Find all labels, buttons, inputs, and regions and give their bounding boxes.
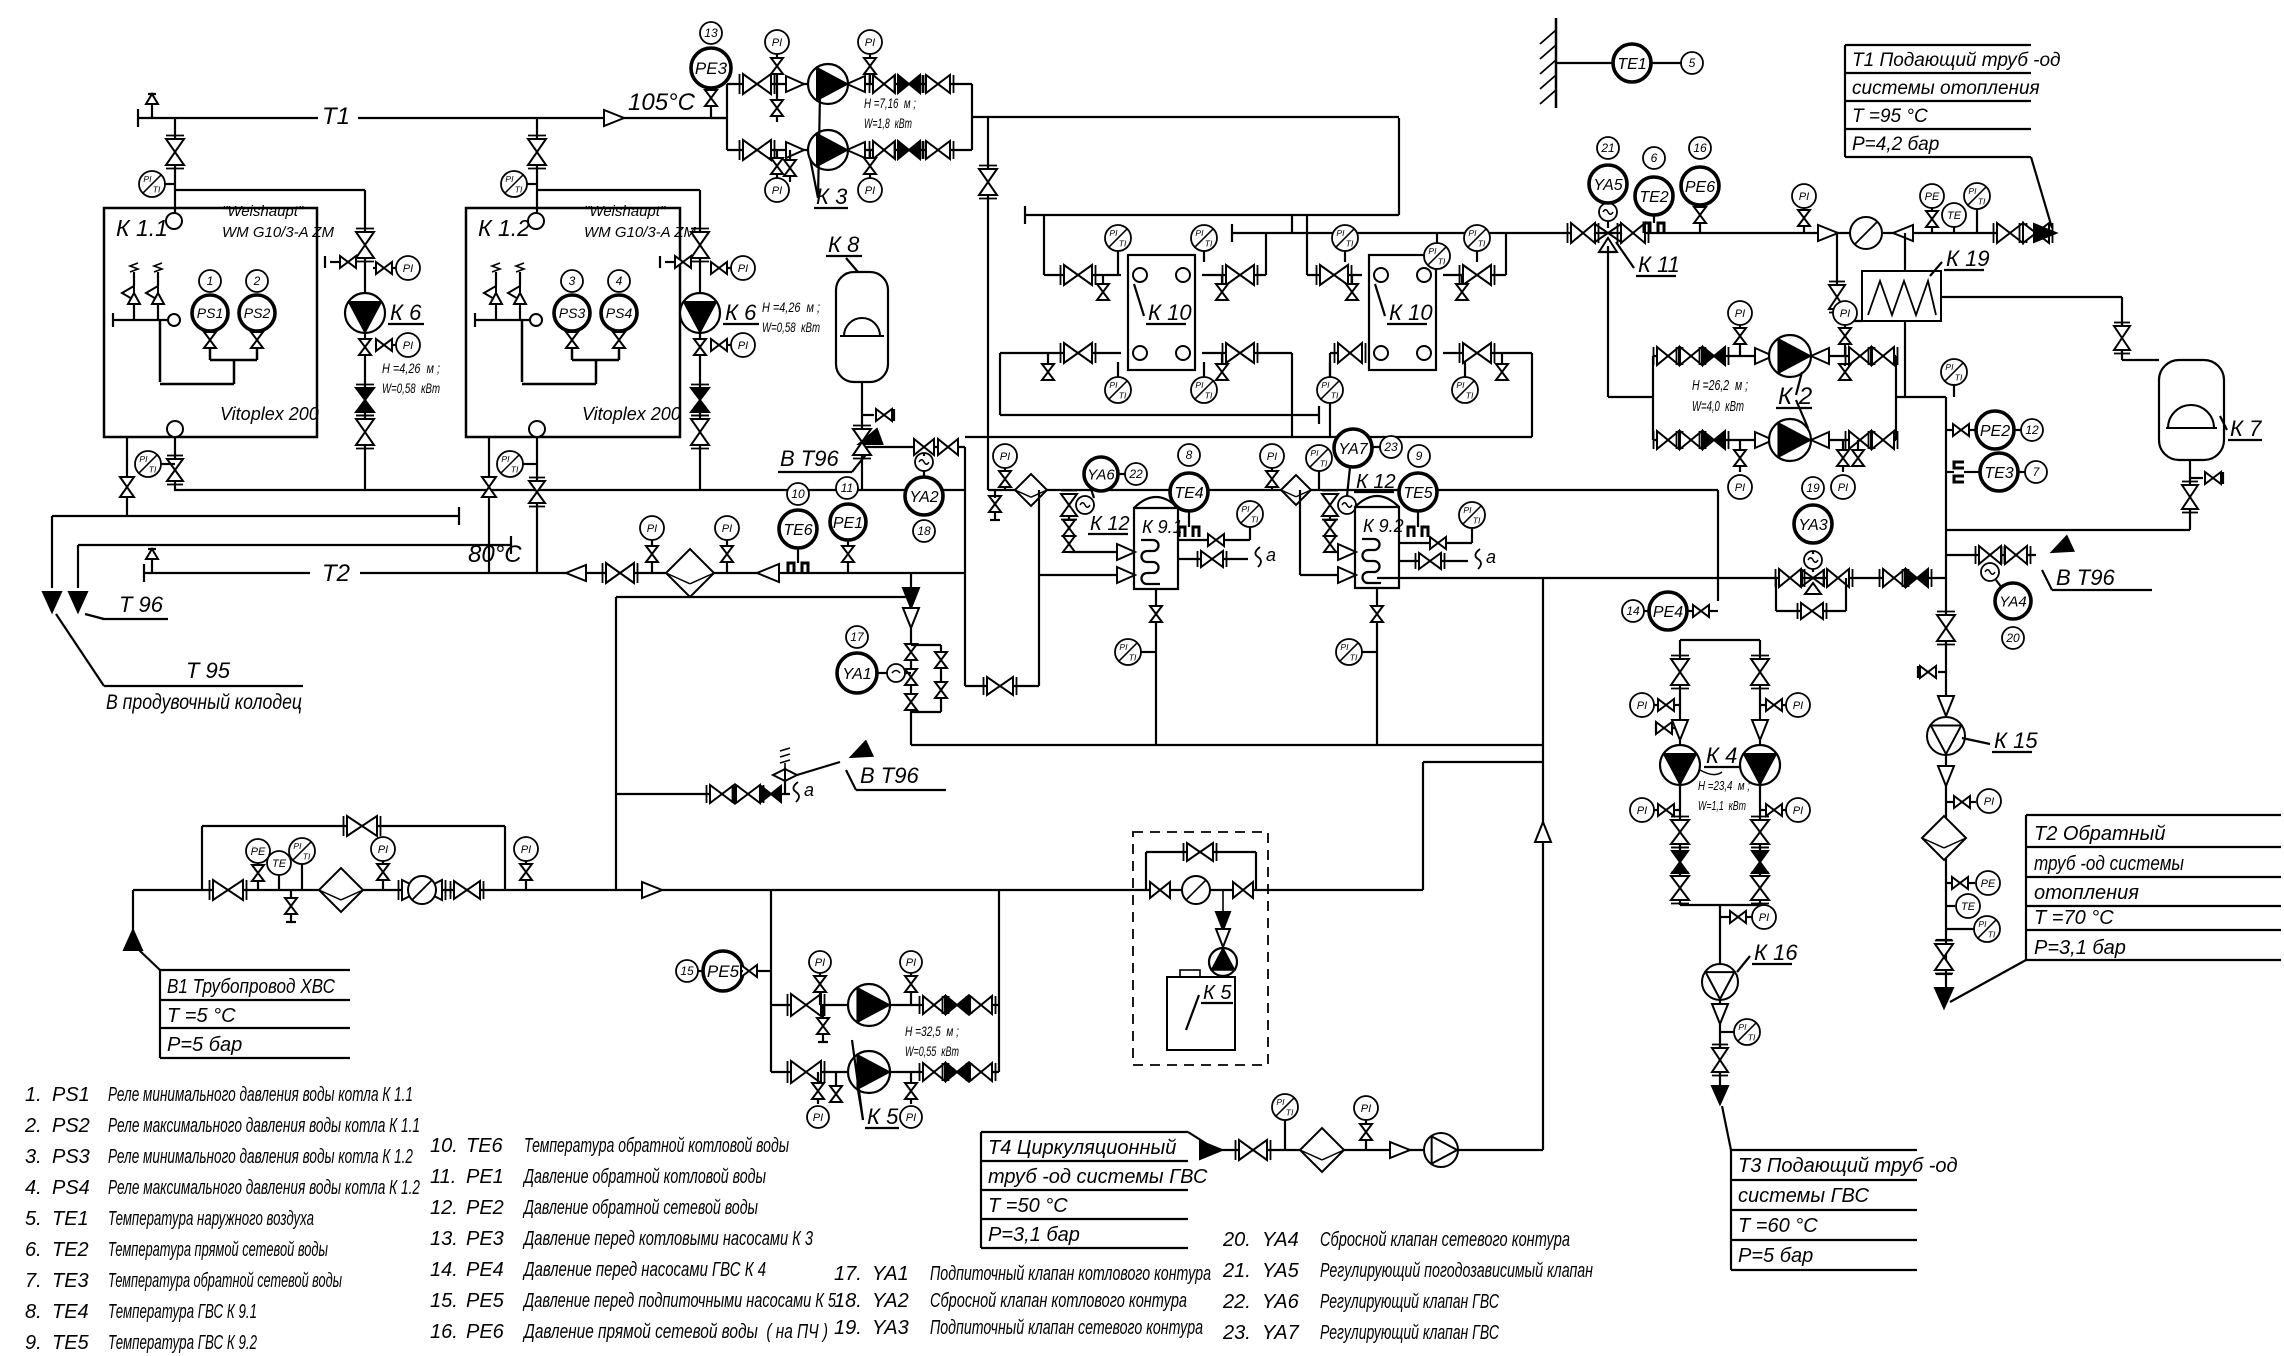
svg-text:PI: PI	[1456, 380, 1465, 390]
balloon 6	[1643, 147, 1665, 169]
svg-text:системы отопления: системы отопления	[1852, 78, 2040, 99]
wire PS manifold K1.1	[160, 348, 257, 384]
port K10 B	[1417, 268, 1431, 282]
svg-text:Давление прямой сетевой воды: Давление прямой сетевой воды ( на ПЧ )	[522, 1321, 828, 1343]
wire makeup riser x1423	[1422, 762, 1424, 890]
svg-text:H =4,26 м ;: H =4,26 м ;	[382, 360, 440, 376]
wire T4 line	[1222, 1149, 1543, 1151]
svg-text:Регулирующий клапан ГВС: Регулирующий клапан ГВС	[1320, 1291, 1499, 1313]
label K6-2	[723, 300, 759, 325]
valve K9.1 Sa	[1198, 551, 1227, 567]
label K4	[1700, 743, 1740, 775]
squiggle a y794	[793, 780, 814, 802]
valve K2 bot in2	[1677, 431, 1706, 449]
pump group K2 frame	[1653, 356, 1896, 440]
valve under PS1	[204, 331, 216, 348]
balloon 17	[846, 626, 868, 648]
valve K12-1	[1061, 491, 1077, 520]
svg-text:ТЕ6: ТЕ6	[783, 522, 812, 539]
valve K2 bot out2	[1869, 431, 1898, 449]
svg-text:PI: PI	[1759, 912, 1769, 924]
gate valve supply 1	[1994, 223, 2027, 243]
pump K6-1	[345, 293, 385, 333]
svg-text:PI: PI	[1000, 451, 1010, 463]
tank K8	[836, 272, 888, 382]
vent K10A bl	[1042, 353, 1054, 380]
burner valves K1.1	[113, 263, 180, 382]
svg-text:Р=3,1 бар: Р=3,1 бар	[2034, 937, 2126, 959]
wire K4 out	[1719, 905, 1721, 964]
label K1.2	[478, 215, 530, 241]
svg-text:W=0,58 кВт: W=0,58 кВт	[762, 319, 820, 335]
svg-text:ТЕ5: ТЕ5	[52, 1332, 90, 1354]
check makeup out	[1903, 569, 1932, 587]
label B T96 bottom	[846, 763, 946, 790]
PI/TI T4	[1272, 1094, 1298, 1150]
svg-text:TI: TI	[1478, 238, 1486, 248]
leader T4 arrow	[1188, 1132, 1222, 1159]
svg-text:1: 1	[207, 274, 214, 288]
svg-text:20: 20	[2005, 631, 2020, 645]
flow tri T4 riser	[1535, 822, 1551, 842]
PI K4 right bot	[1760, 798, 1810, 822]
table B1	[160, 970, 350, 1058]
check valve K2 top	[1700, 347, 1729, 365]
svg-text:14.: 14.	[430, 1259, 458, 1281]
svg-text:PI: PI	[1276, 1097, 1285, 1107]
svg-text:PI: PI	[378, 844, 388, 856]
label K10 A	[1134, 284, 1192, 325]
PI K5 bot left	[807, 1072, 829, 1128]
leader T3 table	[1722, 1106, 1731, 1150]
svg-text:РЕ: РЕ	[1981, 878, 1996, 890]
leader T1 table	[2031, 157, 2052, 228]
wire softener drop	[1222, 890, 1224, 946]
port circle K1.2 bottom	[529, 421, 545, 437]
svg-text:РЕ3: РЕ3	[695, 59, 728, 78]
svg-text:Т4 Циркуляционный: Т4 Циркуляционный	[988, 1137, 1176, 1159]
balloon 15	[676, 960, 703, 982]
svg-text:Давление перед подпиточными на: Давление перед подпиточными насосами К 5	[523, 1290, 837, 1312]
tank K7	[2122, 360, 2224, 460]
label B T96 right	[2042, 565, 2152, 590]
valve K5 bot in	[788, 1061, 825, 1083]
vent K4 left	[1656, 722, 1680, 734]
svg-text:PI: PI	[1637, 700, 1647, 712]
inlet check2 K9.1	[1117, 567, 1135, 583]
svg-text:H =7,16 м ;: H =7,16 м ;	[864, 95, 916, 111]
valve K5 box left	[1150, 882, 1170, 898]
PI right of filter	[715, 516, 739, 573]
PI branch right riser	[1946, 789, 2001, 813]
PI B1 right	[514, 837, 538, 890]
valve K2 top out2	[1869, 347, 1898, 365]
svg-text:Давление обратной сетевой воды: Давление обратной сетевой воды	[523, 1197, 759, 1219]
valve YA2 on blowoff	[914, 439, 934, 455]
drain valve K8	[862, 409, 894, 421]
valve+PI right bot K6-1	[376, 333, 420, 357]
wire K2 bottom branch	[1653, 439, 1896, 441]
bypass drop K9.2	[1300, 490, 1355, 575]
valve K5 top in	[788, 994, 825, 1016]
DHW tank K9.2	[1355, 496, 1404, 588]
svg-text:PI: PI	[505, 174, 514, 184]
instrument TE3	[1964, 453, 2018, 491]
svg-text:23: 23	[1383, 440, 1398, 454]
svg-text:PI: PI	[1840, 308, 1850, 320]
wire collector y437	[965, 436, 1532, 438]
svg-text:PI: PI	[865, 185, 875, 197]
instrument YA1	[837, 653, 877, 693]
svg-text:отопления: отопления	[2034, 882, 2139, 904]
heat exchanger K10 B	[1369, 255, 1436, 370]
label H W K3	[864, 95, 916, 131]
instrument PI/TI at K1.2 top	[501, 171, 537, 197]
svg-text:ТЕ3: ТЕ3	[52, 1270, 89, 1292]
svg-text:18: 18	[917, 524, 931, 538]
svg-text:PI: PI	[1463, 505, 1472, 515]
pump K4-1	[1660, 745, 1700, 785]
svg-text:К 19: К 19	[1946, 246, 1990, 271]
valve on K1.2 drain	[482, 477, 496, 497]
wire K10B top-left	[1307, 215, 1362, 275]
svg-text:13: 13	[704, 26, 718, 40]
boiler K1.1	[104, 208, 317, 437]
vent mid K3 top	[771, 84, 783, 122]
svg-text:W=4,0 кВт: W=4,0 кВт	[1692, 398, 1744, 415]
svg-text:Т =95 °С: Т =95 °С	[1852, 106, 1928, 127]
wire DHW hot drop	[1717, 490, 1719, 601]
svg-text:Сбросной клапан сетевого конту: Сбросной клапан сетевого контура	[1320, 1229, 1570, 1251]
DHW tank K9.1	[1134, 497, 1183, 589]
valve K7 bottom	[2182, 482, 2198, 513]
valve+PI right top K6-2	[711, 256, 755, 280]
label Weishaupt	[222, 203, 304, 220]
label softener K5	[1186, 982, 1233, 1030]
wire K19 out	[1904, 321, 1906, 397]
valve K10A top-left	[1061, 265, 1096, 285]
svg-text:Р=5 бар: Р=5 бар	[1738, 1245, 1813, 1267]
pump K5-2	[848, 1051, 890, 1093]
svg-text:21: 21	[1600, 141, 1614, 155]
label H W K2	[1692, 377, 1748, 415]
wire riser boiler loop	[964, 447, 966, 686]
svg-text:TI: TI	[1320, 458, 1328, 468]
svg-text:PI: PI	[1336, 228, 1345, 238]
wire K9.1 side y540	[1178, 539, 1250, 541]
wire blowdown drop left	[51, 516, 53, 588]
instrument PS2	[239, 295, 275, 331]
table T3 text	[1738, 1155, 1958, 1267]
PI bot right K3	[858, 150, 882, 202]
instrument PS3	[554, 295, 590, 331]
wire K7 bottom	[1946, 460, 2190, 530]
port K10 A	[1133, 268, 1147, 282]
actuator YA2	[915, 453, 933, 477]
svg-text:"Weishaupt": "Weishaupt"	[584, 203, 666, 220]
check K2 bot	[1755, 432, 1773, 448]
svg-text:YA2: YA2	[909, 489, 938, 506]
instrument PE6	[1681, 167, 1719, 205]
instrument PE3	[691, 48, 731, 88]
pump K4-2	[1740, 745, 1780, 785]
balloon 20	[2002, 627, 2024, 649]
table T4 text	[988, 1137, 1208, 1246]
svg-text:TI: TI	[1955, 372, 1963, 382]
valve under K8	[853, 426, 871, 459]
svg-text:PI: PI	[1267, 451, 1277, 463]
valve K3 top out2	[923, 75, 954, 93]
TE B1	[267, 851, 291, 890]
svg-text:PI: PI	[1793, 700, 1803, 712]
check K5 bot	[943, 1063, 972, 1081]
filter on T2	[666, 549, 714, 597]
valve K11 left	[1568, 223, 1599, 243]
valve PE2	[1946, 424, 1969, 436]
check softener	[1216, 912, 1230, 947]
label 80C	[468, 541, 522, 568]
balloon 1	[199, 270, 221, 292]
svg-text:PI: PI	[815, 957, 825, 969]
wire drop T1 to boiler K1.2	[536, 118, 538, 213]
svg-text:ТЕ: ТЕ	[1947, 210, 1962, 222]
svg-text:PI: PI	[772, 185, 782, 197]
valve B1 bypass	[344, 816, 381, 836]
svg-text:а: а	[1486, 547, 1496, 567]
svg-text:9: 9	[1416, 449, 1423, 463]
flow tri T4	[1390, 1142, 1410, 1158]
thermowell TE5	[1408, 511, 1428, 537]
svg-text:Температура прямой сетевой вод: Температура прямой сетевой воды	[108, 1239, 328, 1261]
svg-text:Т1 Подающий труб -од: Т1 Подающий труб -од	[1852, 50, 2061, 71]
wire T2	[144, 564, 965, 582]
balloon 3	[561, 270, 583, 292]
check valve T2 end	[757, 564, 779, 582]
bypass drop K19	[1837, 233, 1862, 321]
svg-text:PI: PI	[1119, 642, 1128, 652]
inlet check K9.1	[1117, 544, 1135, 560]
svg-text:PI: PI	[1310, 448, 1319, 458]
svg-text:PI: PI	[1738, 1022, 1747, 1032]
svg-text:W=1,8 кВт: W=1,8 кВт	[864, 115, 912, 131]
valve K5 box bypass	[1184, 843, 1217, 861]
3-way valve K11	[1595, 224, 1621, 252]
svg-text:PI: PI	[1799, 191, 1809, 203]
svg-text:YA6: YA6	[1087, 466, 1115, 483]
pump K2-1	[1769, 335, 1811, 377]
heat exchanger K10 A	[1128, 255, 1195, 370]
svg-text:PI: PI	[1428, 246, 1437, 256]
svg-text:W=0,58 кВт: W=0,58 кВт	[382, 380, 440, 396]
port circle K1.1 bottom	[167, 421, 183, 437]
svg-text:труб -од системы ГВС: труб -од системы ГВС	[988, 1166, 1208, 1188]
valve low K6-2	[691, 412, 709, 490]
svg-text:3: 3	[569, 274, 576, 288]
label K15	[1962, 728, 2038, 753]
vent B1	[285, 890, 297, 922]
wire K11 drop	[1608, 246, 1653, 397]
svg-text:Vitoplex 200: Vitoplex 200	[220, 404, 319, 424]
svg-text:YA1: YA1	[842, 666, 871, 683]
valve on K19 bypass	[1829, 282, 1845, 313]
valve K10A bot-right	[1223, 343, 1258, 363]
instrument YA5	[1589, 165, 1627, 203]
wire K10B bot-right	[1443, 353, 1532, 437]
valve y794 b	[733, 785, 764, 803]
svg-text:TI: TI	[1251, 514, 1259, 524]
PI K4 left top	[1630, 693, 1680, 717]
svg-text:80°С: 80°С	[468, 541, 522, 568]
svg-text:TI: TI	[149, 464, 157, 474]
svg-text:15: 15	[680, 964, 694, 978]
PI/TI B1	[289, 838, 315, 890]
port circle K1.2 top	[528, 213, 544, 229]
valve 2 on blowoff	[938, 439, 958, 455]
drain valve left K6-1	[325, 256, 356, 268]
svg-text:PS1: PS1	[197, 305, 223, 321]
drain drop K1.2	[488, 437, 490, 573]
svg-text:системы ГВС: системы ГВС	[1738, 1185, 1869, 1207]
balloon 23	[1372, 436, 1402, 458]
vent K10B tr	[1456, 275, 1468, 300]
valve K5 top out	[920, 996, 949, 1014]
svg-text:YA2: YA2	[872, 1290, 909, 1312]
valve K9.2 Sa	[1416, 553, 1445, 569]
softener tank K5	[1167, 970, 1235, 1050]
svg-text:YA6: YA6	[1262, 1291, 1300, 1313]
svg-text:Подпиточный клапан сетевого ко: Подпиточный клапан сетевого контура	[930, 1317, 1203, 1339]
balloon 10	[787, 483, 809, 505]
svg-text:8: 8	[1186, 448, 1193, 462]
wire makeup y578	[1377, 577, 1946, 579]
pump group K5 frame	[771, 890, 999, 1072]
valve YA3 right	[1824, 569, 1853, 587]
svg-text:TI: TI	[1438, 256, 1446, 266]
svg-text:PS3: PS3	[52, 1146, 90, 1168]
PI K4 left bot	[1630, 798, 1680, 822]
svg-text:10.: 10.	[430, 1135, 458, 1157]
pump B1	[399, 876, 446, 904]
label K12-2	[1354, 471, 1396, 493]
vent K5 bot	[830, 1072, 842, 1102]
valve PE4	[1687, 605, 1718, 617]
svg-text:13.: 13.	[430, 1228, 458, 1250]
svg-text:К 16: К 16	[1754, 940, 1798, 965]
flow tri K4 right	[1752, 719, 1768, 740]
inlet check K9.2	[1338, 544, 1356, 560]
check valve K3 top	[895, 75, 924, 93]
PE TE PITI right riser	[1946, 871, 2000, 942]
wire B1 riser	[615, 597, 617, 890]
flow arrow suction	[642, 882, 662, 898]
arrow T96 right	[69, 592, 87, 612]
valve on K1.2 supply	[528, 136, 546, 169]
valve K4 right mid	[1751, 817, 1769, 848]
label K6-1	[388, 300, 424, 325]
flow arrow on T1	[604, 110, 624, 126]
svg-text:H =26,2 м ;: H =26,2 м ;	[1692, 377, 1748, 394]
PE on supply	[1920, 184, 1944, 233]
valve K4 left low	[1671, 873, 1689, 904]
svg-text:11: 11	[841, 481, 853, 495]
svg-text:12: 12	[2025, 423, 2039, 437]
svg-text:РЕ1: РЕ1	[833, 515, 863, 532]
svg-text:PI: PI	[865, 37, 875, 49]
svg-text:PI: PI	[501, 454, 510, 464]
svg-text:20.: 20.	[1222, 1229, 1251, 1251]
valve K10B top-left	[1317, 265, 1352, 285]
label WM G10/3-A ZM 2	[584, 224, 696, 241]
svg-text:TI: TI	[1346, 238, 1354, 248]
svg-text:К 5: К 5	[1203, 982, 1232, 1004]
wire K10B bot-left	[1330, 353, 1362, 437]
svg-text:21.: 21.	[1222, 1260, 1251, 1282]
PI/TI K10B top-right	[1464, 225, 1490, 262]
vent flag on T2	[146, 549, 158, 573]
port K10 B	[1417, 346, 1431, 360]
svg-text:В продувочный колодец: В продувочный колодец	[106, 691, 302, 714]
valve YA3 left	[1776, 569, 1805, 587]
label H W K4	[1698, 778, 1750, 813]
wire B1 line	[133, 889, 616, 891]
wire riser x1039	[0, 0, 1, 1]
PI/TI on supply	[1964, 183, 1990, 233]
wire K10A top-left	[1044, 215, 1121, 275]
svg-text:Vitoplex 200: Vitoplex 200	[582, 404, 681, 424]
PI on supply	[1792, 184, 1816, 233]
svg-text:WM G10/3-A ZM: WM G10/3-A ZM	[222, 224, 334, 241]
svg-text:PI: PI	[1195, 380, 1204, 390]
PI/TI K10B top-left	[1332, 225, 1358, 262]
svg-text:PI: PI	[647, 523, 657, 535]
boiler K1.2	[466, 208, 680, 437]
valve on riser x988	[979, 166, 997, 199]
valve makeup out	[1880, 569, 1909, 587]
svg-text:1.: 1.	[25, 1084, 42, 1106]
svg-text:YA7: YA7	[1338, 441, 1368, 458]
drain K7	[2190, 472, 2223, 484]
valve K5 box right	[1233, 882, 1253, 898]
svg-text:12.: 12.	[430, 1197, 458, 1219]
PI/TI K9.2 drop	[1336, 639, 1377, 665]
makeup bypass	[1776, 578, 1846, 611]
svg-text:РЕ3: РЕ3	[466, 1228, 504, 1250]
svg-text:2: 2	[253, 274, 261, 288]
wire K9.2 bottom drop	[1376, 589, 1378, 745]
balloon 11	[836, 477, 858, 499]
svg-text:К 1.1: К 1.1	[116, 215, 168, 241]
valve under PS2	[251, 331, 263, 348]
check out K3 bot	[847, 142, 865, 158]
pump K5-1	[848, 984, 890, 1026]
legend column 1	[24, 1084, 420, 1354]
PI on K9.1 feed	[993, 444, 1017, 490]
svg-text:PI: PI	[1735, 308, 1745, 320]
svg-text:PI: PI	[813, 1112, 823, 1124]
svg-text:Температура наружного воздуха: Температура наружного воздуха	[108, 1208, 314, 1230]
PI bot left K3	[765, 150, 789, 202]
instrument TE5	[1399, 473, 1437, 511]
legend column 4	[1222, 1229, 1593, 1344]
wire K10A top-right	[1202, 233, 1266, 275]
svg-text:7.: 7.	[25, 1270, 42, 1292]
valve makeup bypass	[1798, 603, 1827, 619]
check valve K3 bot	[895, 141, 924, 159]
label K2	[1776, 372, 1812, 428]
svg-text:ТЕ5: ТЕ5	[1403, 485, 1432, 502]
svg-text:PI: PI	[738, 340, 748, 352]
svg-text:PI: PI	[906, 957, 916, 969]
